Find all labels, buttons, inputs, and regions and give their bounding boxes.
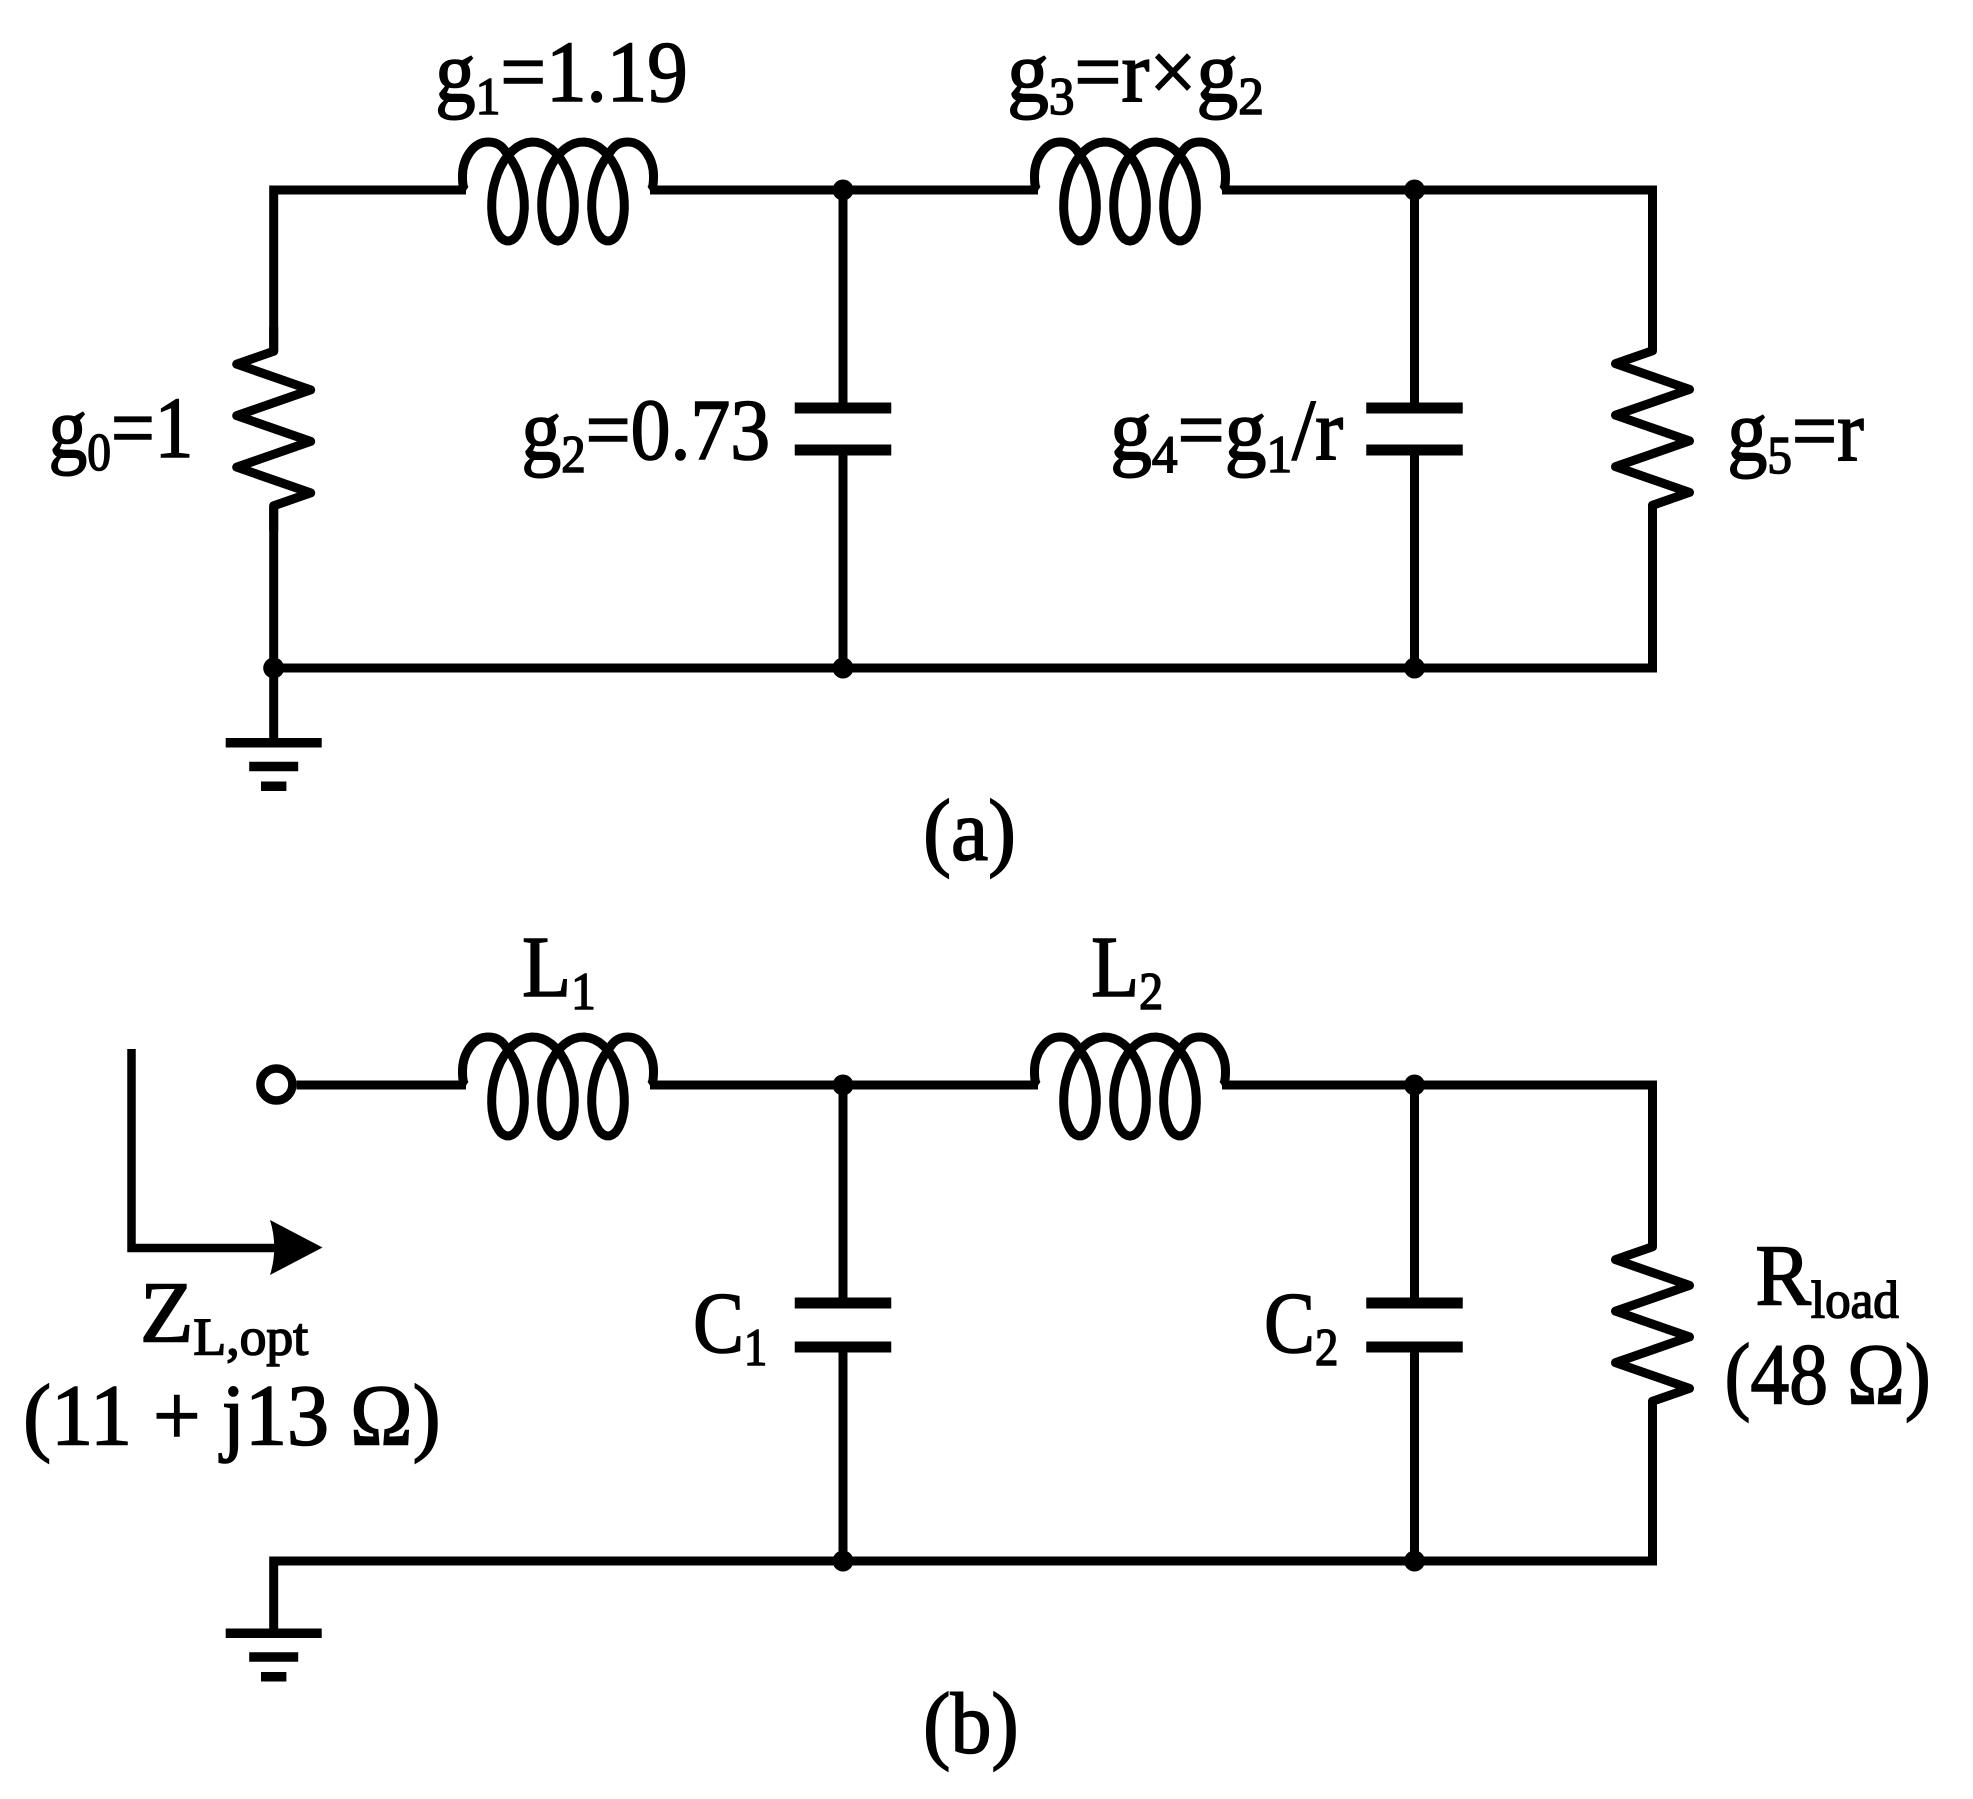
svg-text:(48 Ω): (48 Ω) (1725, 1327, 1931, 1423)
svg-text:(b): (b) (923, 1677, 1019, 1772)
svg-text:g0=1: g0=1 (48, 380, 193, 481)
svg-text:g4=g1/r: g4=g1/r (1110, 383, 1343, 484)
svg-text:g5=r: g5=r (1727, 384, 1864, 485)
svg-text:g1=1.19: g1=1.19 (435, 25, 687, 127)
svg-text:(a): (a) (923, 783, 1016, 879)
svg-text:g3=r×g2: g3=r×g2 (1007, 25, 1264, 127)
svg-text:(11 + j13 Ω): (11 + j13 Ω) (23, 1368, 441, 1463)
svg-text:g2=0.73: g2=0.73 (521, 382, 770, 484)
